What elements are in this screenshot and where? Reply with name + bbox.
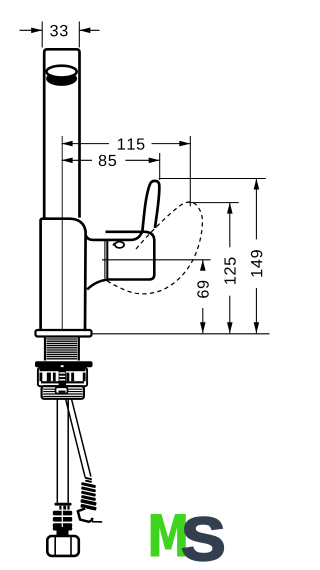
dim 115 left arrowhead	[62, 141, 73, 147]
dim 69 value label	[197, 281, 208, 298]
left hose band highlight	[61, 510, 63, 527]
dim 149 value label	[251, 250, 262, 276]
dim 85 value label	[99, 155, 116, 166]
right hose fitting (angled bands)	[80, 477, 96, 511]
left hose crimp	[55, 503, 72, 506]
dashed open-handle outline	[107, 202, 203, 294]
dim 33 left arrowhead	[31, 28, 42, 34]
dim 115 right arrowhead	[179, 141, 190, 147]
lever blade	[142, 181, 159, 233]
dim 115 value label	[118, 138, 145, 149]
dim 69 top arrowhead	[200, 260, 206, 271]
dim 85 right arrowhead	[149, 158, 160, 164]
washer (black)	[35, 361, 93, 367]
dim 85 line and extension	[62, 153, 160, 180]
dim 33 right arrowhead	[79, 28, 90, 34]
cartridge seam double line	[104, 241, 106, 279]
left hose	[57, 399, 68, 503]
dim 149 bottom arrowhead	[254, 322, 260, 333]
handle skirt bottom	[87, 232, 154, 290]
spout opening dark bowl	[46, 71, 77, 86]
pivot oval detail	[115, 242, 124, 248]
dim 125 value label	[224, 257, 235, 284]
dim 85 left arrowhead	[62, 158, 73, 164]
dim 125 bottom arrowhead	[227, 322, 233, 333]
right hose	[66, 399, 91, 478]
left hose end nut	[47, 536, 79, 556]
centerline extension (spout axis)	[61, 136, 63, 330]
dim 149 line	[255, 179, 257, 334]
dim 33 extension and leader lines	[20, 22, 100, 48]
dim 149 top arrowhead	[254, 179, 260, 190]
spout opening rim ring	[47, 66, 77, 78]
spout pillar outline	[44, 49, 79, 219]
dim 125 top arrowhead	[227, 203, 233, 214]
left hose nut ribs	[53, 511, 72, 516]
dim 125 line	[229, 203, 231, 334]
dim 33 value label	[50, 25, 67, 36]
mounting nut	[38, 368, 87, 386]
dim 69 line	[202, 260, 204, 334]
logo letter M (green)	[151, 514, 186, 557]
right reference lines	[92, 179, 270, 334]
logo letter S (navy)	[183, 517, 223, 560]
threaded stud	[59, 365, 66, 391]
body shoulder, left edge and right side	[41, 219, 86, 330]
right hose elbow tip	[77, 508, 94, 523]
threaded shank	[45, 337, 79, 361]
body top edge to lever	[86, 231, 142, 240]
dim 115 line and extension	[62, 136, 191, 207]
flange	[36, 330, 92, 337]
dim 69 bottom arrowhead	[200, 322, 206, 333]
bottom manifold block	[42, 386, 84, 399]
